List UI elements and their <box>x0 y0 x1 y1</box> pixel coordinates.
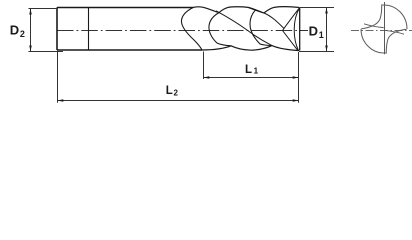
L1 left extension line <box>203 52 205 80</box>
shank top edge <box>57 7 193 9</box>
D1 dimension line <box>326 8 328 52</box>
D2 arrow down <box>29 46 32 52</box>
end tooth upper edge <box>283 8 300 31</box>
D2 top extension line <box>29 8 58 10</box>
shank bottom edge <box>57 49 202 51</box>
shank left edge <box>56 8 58 51</box>
svg-text:1: 1 <box>319 30 324 40</box>
centerline (dash-dot axis) <box>57 30 308 32</box>
svg-text:L: L <box>166 85 173 97</box>
end view centerline (dash-dot) <box>351 30 412 32</box>
end view circle arc top-right <box>383 5 408 29</box>
D2 bottom extension line <box>29 51 64 53</box>
D1 bottom extension line <box>299 51 334 53</box>
shank/body boundary line <box>88 8 90 51</box>
end view circle arc bottom-left <box>361 29 386 53</box>
D1 arrow up <box>325 8 328 14</box>
flute bottom silhouette <box>202 46 299 51</box>
svg-text:2: 2 <box>20 29 25 39</box>
svg-text:D: D <box>10 23 19 38</box>
svg-text:D: D <box>309 24 318 39</box>
L1 arrow left <box>204 76 210 79</box>
flute top silhouette <box>193 7 300 13</box>
end tooth rear silhouette curve <box>294 8 300 51</box>
L2 left extension line <box>57 50 59 103</box>
end view flute face lower-right <box>386 29 407 54</box>
L2 arrow right <box>293 99 299 102</box>
D1 arrow down <box>325 46 328 52</box>
end view cutting lip right <box>384 30 404 34</box>
L1 arrow right <box>293 76 299 79</box>
svg-text:L: L <box>245 64 252 76</box>
flute spiral diagonal 1 <box>216 11 272 46</box>
D1 top extension line <box>300 7 334 9</box>
svg-text:2: 2 <box>174 88 179 97</box>
L2 arrow left <box>58 99 64 102</box>
L1 dimension line <box>204 77 299 79</box>
D2 dimension line <box>30 9 32 51</box>
end face edge <box>299 8 301 51</box>
end view cutting lip left <box>364 24 384 28</box>
end view flute face upper-left <box>361 4 382 29</box>
L2 / L1 right extension line <box>298 52 300 103</box>
flute helix curve 2 <box>209 13 231 46</box>
flute helix curve 3 <box>250 10 272 46</box>
flute spiral diagonal 2 <box>248 7 284 28</box>
end view vertical axis line <box>384 2 386 54</box>
L2 dimension line <box>58 100 299 102</box>
D2 arrow up <box>29 9 32 15</box>
end tooth lower edge <box>283 31 298 51</box>
svg-text:1: 1 <box>254 66 259 75</box>
flute helix curve 1 <box>181 8 202 51</box>
